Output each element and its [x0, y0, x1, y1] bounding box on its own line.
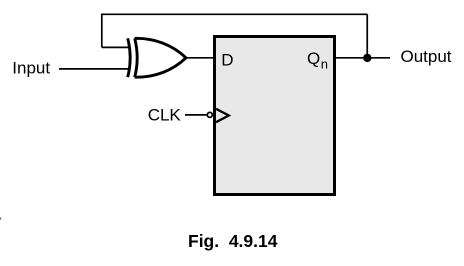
svg-text:Fig. 4.9.14: Fig. 4.9.14	[188, 231, 278, 251]
svg-text:Output: Output	[401, 47, 452, 66]
svg-text:CLK: CLK	[148, 105, 182, 124]
svg-text:n: n	[321, 56, 328, 71]
svg-text:Input: Input	[12, 58, 50, 77]
svg-text:D: D	[221, 50, 233, 69]
svg-text:Q: Q	[307, 49, 320, 68]
